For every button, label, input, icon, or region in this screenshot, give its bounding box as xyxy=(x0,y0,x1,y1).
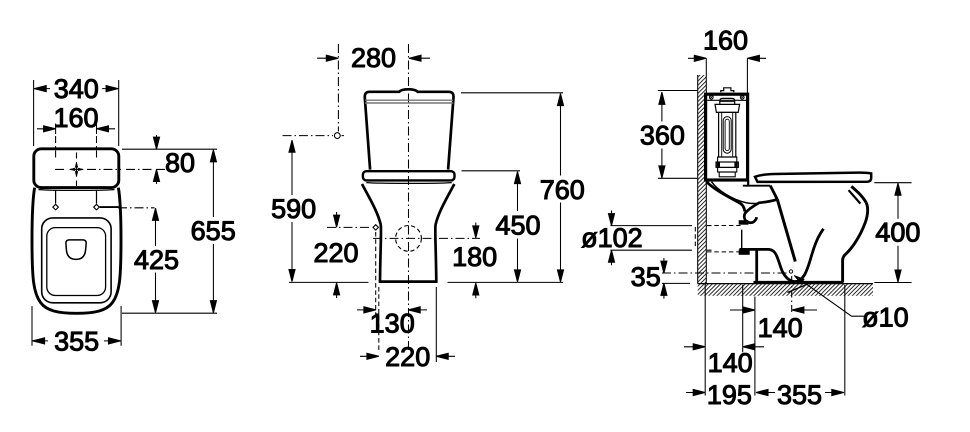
bowl rim section underside and spigot hook xyxy=(744,199,777,222)
dim 35 xyxy=(631,258,667,299)
dim 355 extension lines xyxy=(32,306,121,346)
dim 655 xyxy=(191,150,236,313)
datum dash-dot to 220 xyxy=(327,226,372,228)
dim 760 xyxy=(540,94,585,282)
outlet front face xyxy=(741,230,743,249)
dim 80 xyxy=(122,135,217,184)
dim 425 hinge datum dash-dot xyxy=(118,207,155,209)
bowl left side xyxy=(362,184,381,281)
svg-text:220: 220 xyxy=(313,238,358,268)
svg-text:ø10: ø10 xyxy=(862,303,909,333)
svg-text:760: 760 xyxy=(540,175,585,205)
dim ø102 xyxy=(581,211,643,266)
dim 280 xyxy=(317,43,430,73)
centerline xyxy=(408,44,410,353)
svg-text:130: 130 xyxy=(370,308,415,338)
dim 360 ext lines xyxy=(658,91,697,179)
dim ø102 lines xyxy=(610,226,692,251)
push button on tank top xyxy=(721,88,734,92)
dim 360 xyxy=(640,92,685,178)
flush valve cap line xyxy=(720,101,734,103)
wall hatch xyxy=(698,75,707,284)
bowl rim line xyxy=(366,182,451,185)
bowl rim section front slant xyxy=(770,186,777,200)
valve base band 3 xyxy=(718,167,737,172)
bowl back rim edge xyxy=(851,186,866,202)
below-floor extension: outlet center dash-dot xyxy=(791,276,793,315)
dim 130 xyxy=(357,307,427,339)
drain center dash-dot xyxy=(373,237,480,239)
dim 355 xyxy=(33,327,121,357)
dim 220 bottom refs xyxy=(378,287,380,352)
dim 160 xyxy=(688,26,766,62)
outlet top gasket xyxy=(739,221,747,224)
floor line xyxy=(698,283,873,285)
dim 340 extension lines xyxy=(34,80,119,146)
svg-text:180: 180 xyxy=(452,242,497,272)
bowl right side xyxy=(435,184,454,281)
foot front face xyxy=(755,250,758,282)
svg-text:400: 400 xyxy=(875,218,920,248)
svg-text:355: 355 xyxy=(54,327,99,357)
svg-text:195: 195 xyxy=(707,380,752,410)
wall boundary lines xyxy=(698,58,707,283)
drain dashed circle xyxy=(396,226,422,252)
lid screw right xyxy=(740,95,744,99)
flush valve collar xyxy=(715,104,740,112)
svg-text:80: 80 xyxy=(165,148,195,178)
svg-text:355: 355 xyxy=(777,380,822,410)
floor line segment left of wall xyxy=(662,282,690,284)
valve base band 2 xyxy=(716,162,738,167)
cistern tank box (side) xyxy=(706,94,748,180)
bowl edge datum diamond xyxy=(373,225,378,230)
bowl funnel diagonal xyxy=(777,199,795,261)
tank lid joint xyxy=(707,99,746,101)
dim 340 xyxy=(34,74,118,104)
svg-text:280: 280 xyxy=(351,43,396,73)
seat lid outer edge xyxy=(42,218,111,303)
svg-text:ø102: ø102 xyxy=(581,223,643,253)
seat edge band xyxy=(363,171,455,180)
pedestal base xyxy=(379,280,438,283)
flush valve tube inner lines xyxy=(722,112,733,157)
flush valve tube xyxy=(719,112,736,157)
dim 140 upper xyxy=(730,307,817,343)
trap low point marker circle xyxy=(789,270,792,273)
svg-text:220: 220 xyxy=(385,342,430,372)
dim 425 xyxy=(134,208,179,312)
trap shelf line xyxy=(740,229,824,282)
svg-text:140: 140 xyxy=(758,313,803,343)
outlet hidden lines upper xyxy=(707,225,741,227)
svg-text:140: 140 xyxy=(708,348,753,378)
svg-text:340: 340 xyxy=(54,74,99,104)
bowl back outer curve xyxy=(843,203,868,282)
svg-text:360: 360 xyxy=(640,120,685,150)
lid screw left xyxy=(709,95,713,99)
dim 590 xyxy=(271,140,316,281)
dim 160 xyxy=(37,103,115,158)
tank top extension xyxy=(461,92,563,94)
below-floor extension: fixing hole xyxy=(742,285,744,353)
floor extension right xyxy=(448,281,564,283)
tank front to rim drop xyxy=(747,181,749,186)
bowl body outline (top view) xyxy=(32,188,121,314)
svg-text:655: 655 xyxy=(191,216,236,246)
dim 220 left xyxy=(313,212,358,298)
water spot xyxy=(66,240,86,260)
cistern tank (front) xyxy=(365,89,454,169)
bowl back inner diagonal xyxy=(849,190,861,203)
valve base band 2 side blocks xyxy=(717,163,720,167)
bowl rim section top edge xyxy=(743,185,771,187)
outlet bottom gasket xyxy=(739,250,749,254)
dim 450 xyxy=(495,172,540,282)
ø102 hidden box in wall xyxy=(695,226,712,251)
hinge pin right xyxy=(94,204,100,210)
dim 180 xyxy=(452,223,497,299)
under-tank inner line xyxy=(712,182,759,204)
dim 400 xyxy=(875,183,920,282)
cistern tank outline (top view) xyxy=(34,149,119,188)
flush valve cap xyxy=(720,98,735,104)
dim ø10 leader xyxy=(788,273,909,332)
svg-text:590: 590 xyxy=(271,194,316,224)
seat lid slab xyxy=(755,173,871,182)
water inlet marker circle xyxy=(334,133,340,139)
pedestal base (side) xyxy=(754,281,844,284)
under-tank outer profile xyxy=(707,182,745,212)
svg-text:425: 425 xyxy=(134,245,179,275)
dim 400 ext lines xyxy=(874,183,911,283)
tank lid joint lines (gray) xyxy=(365,100,453,103)
below-floor extension: bowl front xyxy=(844,285,846,396)
dim 130 refs xyxy=(375,232,377,314)
below-floor extension: foot front xyxy=(754,297,756,396)
below-floor extension: wall face xyxy=(704,284,706,396)
flush valve float window inner xyxy=(725,119,729,150)
dim 160 ext right xyxy=(746,58,748,95)
tank center mark crosshair xyxy=(55,153,165,187)
dim 220 bottom xyxy=(360,342,455,372)
dim 195 xyxy=(686,380,752,410)
dim 355 (side) xyxy=(756,380,844,410)
bottom extension line xyxy=(122,312,217,314)
valve base band 4 xyxy=(719,172,735,177)
bowl back edge line xyxy=(39,189,115,192)
svg-text:450: 450 xyxy=(495,210,540,240)
svg-text:160: 160 xyxy=(703,26,748,56)
svg-text:35: 35 xyxy=(631,262,661,292)
valve base band 1 xyxy=(718,157,737,162)
floor hatch xyxy=(698,284,873,296)
hinge to rim connector xyxy=(100,206,120,208)
svg-text:160: 160 xyxy=(53,103,98,133)
water seal dash-dot line xyxy=(662,272,789,274)
hinge pin left xyxy=(53,204,59,210)
flush valve float window xyxy=(723,117,731,154)
seat hinge extension lines xyxy=(56,190,97,204)
outlet hidden lines lower xyxy=(707,251,739,253)
seat top extension xyxy=(462,170,521,172)
inlet dash-dot lines xyxy=(283,135,345,137)
floor extension left xyxy=(289,281,369,283)
seat lid inner edge xyxy=(47,228,106,296)
dim 140 lower xyxy=(684,344,764,378)
